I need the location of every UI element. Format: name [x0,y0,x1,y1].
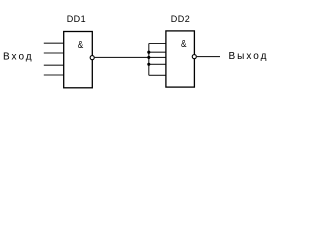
AND gate DD2 body [166,31,195,87]
wire DD2 output lead [197,56,220,58]
junction dot at bus pin 3 [147,56,150,59]
wire bus bottom corner to DD2 pin 5 [149,74,166,76]
wire input lead 4 to DD1 pin [44,74,64,76]
svg-text:Выход: Выход [229,51,269,62]
wire input lead 2 to DD1 pin [44,52,64,54]
wire bus top corner to DD2 pin 1 [149,43,166,45]
wire bus to DD2 pin 3 [149,56,166,58]
AND gate DD1 body [64,32,93,88]
wire DD1 output to DD2 input bus [95,56,149,58]
DD2 inverted output bubble [192,55,196,59]
svg-text:Вход: Вход [3,52,34,63]
wire bus to DD2 pin 2 [149,51,166,53]
svg-text:&: & [78,38,84,50]
junction dot at bus pin 4 [147,63,150,66]
wire DD2 input bus (vertical) [148,44,150,76]
DD1 inverted output bubble [90,56,94,60]
wire input lead 3 to DD1 pin [44,64,64,66]
svg-text:DD1: DD1 [67,14,87,24]
wire bus to DD2 pin 4 [149,63,166,65]
junction dot at bus pin 2 [147,51,150,54]
svg-text:DD2: DD2 [171,14,191,24]
svg-text:&: & [181,37,187,49]
wire input lead 1 to DD1 pin [44,42,64,44]
